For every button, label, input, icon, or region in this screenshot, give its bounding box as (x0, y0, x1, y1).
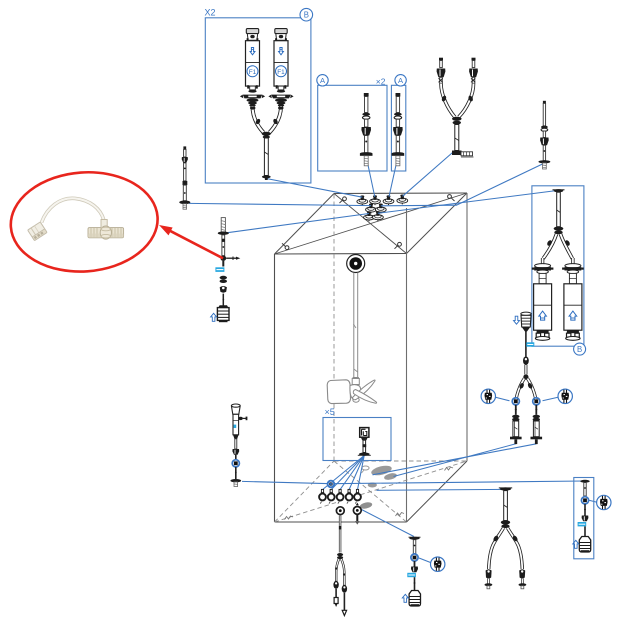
gray bottom port ring B (368, 483, 377, 488)
Y assembly outlet tube (455, 125, 459, 151)
syringe Y clamp (523, 356, 529, 365)
filter capsule up left (532, 264, 554, 341)
corner zigzag back-right bottom (445, 467, 454, 471)
mid Y right branch (508, 528, 523, 569)
vessel top face back edge (334, 192, 467, 195)
quick connector body (360, 428, 369, 438)
Y assembly junction collar (452, 117, 462, 125)
assy1 top cap (183, 146, 186, 149)
right tube clamp (540, 138, 549, 146)
Y junction collar (262, 132, 271, 139)
filter capsule F1 left (240, 29, 265, 107)
svg-text:B: B (304, 11, 309, 20)
funnel blue node (232, 460, 239, 467)
filter capsule F1 right (268, 29, 293, 107)
assy2 clamp (220, 286, 227, 293)
assy2 upper tube (222, 235, 225, 256)
outlet tube (264, 138, 268, 176)
BR bag (579, 537, 590, 553)
leader line L3 A1 group to port P2 (366, 157, 375, 197)
BR blue node (581, 497, 588, 504)
right tube collar (541, 126, 548, 132)
clamp icon circle 2 (558, 389, 572, 403)
leader line L16 syringe tip to bottom port (394, 444, 516, 477)
harvest collar (337, 553, 343, 559)
svg-text:X2: X2 (205, 8, 216, 18)
right tube mid (543, 131, 545, 138)
mid Y left clamp (486, 569, 492, 578)
waste bag blue arrow (402, 594, 408, 602)
BR lower tube (584, 526, 586, 536)
group box right B (532, 186, 584, 346)
vessel bottom right edge (407, 461, 468, 522)
leader line Lc1 node to clamp icon (496, 397, 510, 401)
mid Y junction collar (501, 520, 510, 528)
leader line L6 sampling assembly to port P7 (227, 214, 370, 233)
group box A1 (318, 85, 387, 171)
svg-text:×5: ×5 (325, 407, 335, 417)
sampling assembly A1 (360, 93, 373, 166)
agitator shaft (352, 273, 359, 385)
label circled B right (574, 343, 586, 355)
funnel cup (231, 404, 240, 414)
mid Y left foot (485, 579, 493, 589)
harvest left clamp (333, 581, 338, 589)
assy2 T-bar (218, 232, 229, 235)
corner hook front-right (395, 242, 402, 248)
Y assembly left tube (441, 84, 455, 118)
gray bottom port ring D (362, 466, 370, 473)
corner zigzag front-right bottom (396, 513, 405, 517)
assy2 T junction with barb (221, 255, 241, 261)
assy2 blue arrow (211, 313, 217, 321)
Y assembly right connector X (471, 77, 475, 83)
black fitting port (353, 503, 361, 525)
bottom port B1 (319, 489, 326, 503)
connector foot (358, 453, 371, 456)
label X2 (205, 8, 216, 18)
funnel tube (235, 455, 237, 460)
bottom port B3 (337, 489, 344, 503)
red ellipse callout (7, 167, 161, 276)
assy1 upper tube (184, 149, 186, 157)
mid Y right clamp (519, 569, 525, 578)
vessel top face front edge (275, 253, 407, 256)
mid Y left branch (489, 528, 504, 569)
right tube upper (543, 103, 545, 126)
leader line L4 A2 group to port P3 (389, 157, 398, 197)
leader line Lc3 node to clamp icon (589, 500, 597, 502)
waste top cap (409, 537, 421, 540)
leader line L17 syringe tip to bottom port (373, 444, 537, 475)
impeller blade upper-right (353, 380, 376, 400)
vessel bottom diagonal dashed 1 (275, 461, 468, 522)
assy1 foot (179, 201, 190, 210)
leader line Lc4 node to clamp icon (419, 558, 431, 563)
group box x5 (323, 418, 391, 461)
right tube lower (543, 145, 545, 161)
vessel bottom left edge dashed (275, 461, 335, 522)
gray bottom port ellipse C (359, 472, 397, 510)
right tube foot (538, 160, 550, 169)
vessel bottom back edge dashed (334, 460, 467, 462)
waste lower tube (414, 577, 416, 590)
vessel top face right edge (407, 193, 468, 254)
leader line L5 Y-assembly to port P4 (403, 150, 457, 197)
harvest right connector (342, 593, 346, 616)
top port P5 (366, 204, 377, 214)
corner hook front-left (282, 243, 289, 249)
bellows blue arrow (514, 316, 520, 324)
assy2 canister (217, 305, 229, 322)
BR mid tube (584, 504, 586, 516)
corner zigzag front-left bottom (285, 516, 294, 520)
BR bag blue arrow (573, 540, 579, 548)
assy1 clamp (182, 157, 188, 163)
Y assembly right clamp (469, 69, 478, 78)
clamp icon circle 1 (481, 389, 495, 403)
bellows outlet tube (525, 332, 527, 357)
BR top cap (580, 480, 590, 483)
blue node right (533, 398, 540, 405)
connector stem (362, 440, 366, 452)
vessel top face diagonal brace 2 (334, 194, 407, 254)
clamp icon circle 3 (597, 495, 611, 509)
clamp icon circle 4 (431, 557, 445, 571)
agitator bearing housing (347, 255, 365, 273)
connector neck (361, 437, 368, 440)
Y assembly foot fitting (452, 151, 474, 158)
vessel front-right vertical edge (406, 208, 408, 522)
syringe left body (510, 405, 522, 444)
label circled B top (300, 8, 313, 21)
leader line L7 right tube to port P6 elbow (381, 164, 544, 206)
svg-text:B: B (577, 345, 582, 354)
B group junction collar (554, 227, 564, 235)
funnel clamp (232, 449, 239, 455)
top port P1 (357, 195, 368, 205)
outlet end cap (262, 175, 271, 180)
funnel foot (230, 479, 241, 487)
harvest Y right (341, 559, 345, 587)
blue highlighted port (328, 481, 335, 488)
group box bottom right (574, 478, 594, 559)
top port P7 (364, 211, 375, 221)
vessel top face left edge (275, 194, 335, 255)
leader line Lc2 node to clamp icon (543, 397, 559, 401)
waste bag (409, 591, 420, 607)
Y assembly right branch cap (472, 58, 476, 68)
top port P2 (370, 195, 381, 205)
red arrow (159, 225, 223, 258)
harvest port with dot (336, 507, 344, 515)
right tube top cap (543, 101, 546, 104)
funnel side arm (238, 417, 247, 421)
bottom port B5 (354, 489, 361, 503)
impeller blade lower-right (353, 390, 376, 404)
top port P6 (375, 204, 386, 214)
funnel lower neck (233, 435, 239, 449)
gray bottom port ellipse A (370, 464, 392, 477)
photo T-fitting (88, 220, 124, 240)
harvest Y left (335, 559, 339, 583)
BR tube upper (584, 483, 586, 497)
syringe Y split (516, 374, 536, 399)
bellows pump device (521, 312, 531, 331)
corner hook back-left (340, 197, 347, 203)
B group inlet tube (557, 192, 561, 227)
svg-text:×2: ×2 (376, 77, 386, 87)
vessel bottom front edge (275, 521, 407, 523)
leader fan line F5 (358, 456, 365, 490)
group box A2 (391, 85, 405, 171)
B group Y right branch (561, 234, 573, 265)
leader fan line F4 (349, 456, 364, 490)
harvest right clamp (342, 585, 347, 593)
funnel body (233, 414, 239, 435)
B group inlet cap (553, 189, 565, 192)
harvest left connector (334, 589, 338, 607)
vessel top face diagonal brace 1 (275, 193, 468, 254)
blue node left (512, 398, 519, 405)
assy2 striped top tube (221, 218, 225, 232)
top port P8 (373, 211, 384, 221)
waste blue node (411, 554, 418, 561)
harvest tube upper (339, 516, 341, 553)
vessel back-left hidden edge dashed (333, 194, 335, 461)
top port P3 (383, 195, 394, 205)
leader line L9 funnel assembly to blue port (242, 481, 331, 483)
leader fan line F3 (340, 456, 364, 490)
leader line L2 X2 group to port P1 (266, 179, 362, 198)
mid Y right foot (519, 579, 527, 589)
label circled A2 (395, 75, 406, 86)
filter capsule up right (562, 264, 584, 341)
funnel lower tube (235, 467, 237, 479)
label x2 multiplier (376, 77, 386, 87)
mid Y inlet tube (504, 491, 508, 521)
BR clamp (582, 516, 589, 522)
corner hook back-right (448, 195, 455, 201)
waste tube upper (413, 540, 416, 554)
impeller left blade (327, 380, 350, 404)
leader line L18 blue port to bottom-right box (331, 481, 584, 484)
leader line L1 assembly1 to port P5 (189, 203, 371, 205)
BR cyan label (578, 522, 587, 526)
photo luer fitting (28, 222, 47, 241)
bottom port B2 (328, 489, 335, 503)
assy2 collar (220, 276, 227, 283)
leader line Lmid bottom Y assembly to gray port (377, 488, 507, 491)
Y assembly left connector X (439, 77, 443, 83)
impeller hub (350, 385, 361, 403)
Y assembly left branch cap (439, 58, 443, 68)
top port P4 (397, 195, 408, 205)
Y assembly left clamp (437, 69, 446, 78)
syringe Y tube (524, 365, 527, 375)
assy1 lower tube (183, 185, 186, 201)
waste mid tube (414, 561, 416, 567)
waste cyan label (407, 573, 416, 577)
cyan label right (526, 342, 534, 346)
mid Y top cap (499, 487, 512, 490)
assy2 thin tube (222, 294, 224, 307)
sampling assembly A2 (392, 93, 405, 166)
leader fan line F2 (331, 456, 364, 490)
photo tube (42, 198, 104, 222)
bottom port B4 (346, 489, 353, 503)
label x5 multiplier (325, 407, 335, 417)
leader line L8 right B group to port P8 (378, 191, 557, 214)
leader line L15 port to waste assembly (362, 510, 414, 537)
syringe right body (531, 405, 543, 444)
assy1 collar (183, 181, 188, 185)
label circled A1 (317, 75, 328, 86)
group box X2/B (205, 18, 311, 183)
vessel front-left vertical edge (274, 254, 276, 522)
waste clamp (411, 567, 418, 573)
assy2 tube below junction (222, 261, 224, 267)
B group Y left branch (543, 234, 557, 265)
Y tubing right branch (270, 106, 284, 133)
assy2 cyan label (215, 267, 224, 272)
assy1 mid tube (184, 163, 186, 181)
vessel back-right vertical edge (466, 193, 468, 461)
leader fan line F1 (323, 456, 365, 490)
Y tubing left branch (250, 106, 264, 133)
vessel bottom diagonal dashed 2 (334, 461, 407, 522)
Y assembly right tube (459, 84, 474, 118)
